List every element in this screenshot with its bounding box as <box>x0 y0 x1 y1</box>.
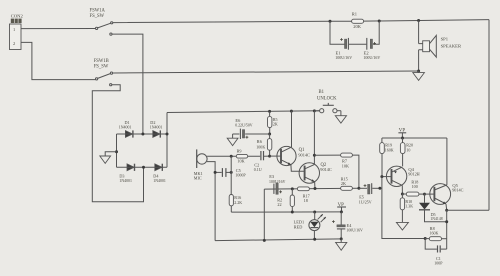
wire FSW1B lower throw to bridge bottom node <box>92 85 143 202</box>
resistor R15 <box>341 176 353 190</box>
svg-text:FS_SW: FS_SW <box>90 14 105 19</box>
wire Q2 collector up <box>313 111 315 165</box>
node R8 C1 left <box>424 237 427 240</box>
node VP E4 top <box>340 210 343 213</box>
svg-text:10K: 10K <box>237 159 244 164</box>
svg-text:E6: E6 <box>235 118 241 123</box>
svg-text:1000P: 1000P <box>235 173 246 178</box>
wire top rail right segment <box>364 20 489 22</box>
svg-text:1N4001: 1N4001 <box>119 179 132 183</box>
resistor R7 <box>314 153 352 168</box>
capacitor E4 <box>332 212 363 239</box>
LED LED1 RED <box>294 212 326 239</box>
node E1 branch right <box>378 20 381 23</box>
wire Q1 emitter to Q2 base <box>291 165 305 172</box>
capacitor E6 <box>233 118 270 139</box>
switch FSW1A <box>90 9 113 36</box>
wire mic top to R9 <box>207 155 236 157</box>
node R5 top <box>268 110 271 113</box>
svg-text:2: 2 <box>13 41 15 46</box>
wire top rail left segment <box>113 21 352 22</box>
svg-text:100U/16V: 100U/16V <box>346 229 363 233</box>
resistor R2 <box>277 189 294 212</box>
power VP right <box>398 129 406 138</box>
node Q1 base junction <box>268 155 271 158</box>
svg-text:1N4148: 1N4148 <box>430 217 442 221</box>
node R2 bottom <box>291 211 294 214</box>
connector CON2 <box>10 14 24 50</box>
svg-text:0.22U/50V: 0.22U/50V <box>235 124 253 128</box>
wire Q5 collector to rail <box>446 138 448 185</box>
svg-text:20K: 20K <box>353 24 362 29</box>
node R5 R6 E6 junction <box>268 133 271 136</box>
svg-text:R9: R9 <box>237 149 242 154</box>
capacitor E5 <box>359 183 380 204</box>
svg-text:D4: D4 <box>153 173 159 178</box>
svg-text:10: 10 <box>406 147 410 152</box>
node Q5 base D5 junction <box>423 193 426 196</box>
svg-text:SPEAKER: SPEAKER <box>441 43 462 48</box>
svg-text:1N4001: 1N4001 <box>150 126 163 130</box>
svg-text:100K: 100K <box>256 145 265 150</box>
wire emitter rail <box>264 187 359 190</box>
ground at speaker <box>413 71 425 80</box>
resistor R1 <box>352 11 364 29</box>
svg-text:E4: E4 <box>347 223 353 228</box>
svg-text:22: 22 <box>277 202 281 207</box>
node VP R20 <box>401 137 404 140</box>
svg-text:100P: 100P <box>434 261 443 266</box>
svg-text:100U/16V: 100U/16V <box>363 55 380 60</box>
node speaker top <box>417 19 420 22</box>
wire Q5 base <box>425 193 435 195</box>
wire E3 left to ground rail <box>263 189 265 240</box>
node button tap <box>313 109 316 112</box>
svg-text:D2: D2 <box>150 120 155 125</box>
wire bridge left rail <box>116 134 118 167</box>
svg-text:E3: E3 <box>269 174 275 179</box>
node LED bottom <box>313 238 316 241</box>
node Q2 emitter R15 junction <box>314 187 317 190</box>
node bridge right top <box>166 133 169 136</box>
node E1 branch left <box>329 20 332 23</box>
node bridge ground tap <box>115 150 118 153</box>
svg-text:160K: 160K <box>385 147 394 152</box>
node bridge top mid <box>141 133 144 136</box>
diode D5 1N4148 <box>419 194 447 222</box>
svg-text:UNLOCK: UNLOCK <box>317 96 337 101</box>
svg-text:100: 100 <box>412 184 418 189</box>
transistor Q2 9014C <box>299 163 332 183</box>
node D5 cathode junction <box>445 220 448 223</box>
node R2 top <box>291 187 294 190</box>
wire FSW1A lower throw to bridge top node <box>112 34 143 134</box>
wire bridge bottom row <box>117 166 168 168</box>
svg-text:FSW1B: FSW1B <box>94 59 109 64</box>
svg-text:2.2K: 2.2K <box>234 200 242 205</box>
wire Q2 emitter down <box>314 182 316 189</box>
switch FSW1B <box>94 59 113 86</box>
diode D2 1N4001 <box>150 120 163 137</box>
node Q4 base tee <box>380 175 383 178</box>
svg-text:9014C: 9014C <box>298 152 310 157</box>
wire CON2 pin1 to FSW1A common <box>21 28 96 30</box>
wire Q5 emitter to R8 <box>446 210 448 249</box>
wire ground rail bottom <box>215 239 342 241</box>
wire VP rail <box>231 211 341 213</box>
svg-text:1N4001: 1N4001 <box>153 179 166 183</box>
resistor R20 <box>400 138 413 166</box>
svg-text:0.1U: 0.1U <box>254 167 262 172</box>
svg-text:CON2: CON2 <box>11 14 24 19</box>
microphone MK1 MIC <box>194 149 207 180</box>
node speaker ground junction <box>417 70 420 73</box>
diode D3 1N4001 <box>119 164 134 183</box>
node Q5 emitter <box>445 209 448 212</box>
svg-text:9014C: 9014C <box>452 188 463 193</box>
svg-text:FSW1A: FSW1A <box>90 9 106 14</box>
ground at button B1 <box>335 111 346 123</box>
svg-text:1.3K: 1.3K <box>405 204 413 209</box>
wire CON2 pin2 to FSW1B common <box>21 42 96 79</box>
wire supply rail from bridge to button <box>167 111 320 113</box>
wire bridge right rail <box>166 113 168 168</box>
resistor R9 <box>236 149 247 164</box>
resistor R6 <box>256 134 272 156</box>
wire Q5 emitter down <box>445 204 448 210</box>
svg-text:RED: RED <box>294 224 303 229</box>
svg-text:MIC: MIC <box>194 176 202 181</box>
node Q1 collector top <box>290 110 293 113</box>
svg-text:1U/25V: 1U/25V <box>359 199 372 204</box>
wire Q5 emitter to right edge <box>447 209 489 211</box>
svg-text:9014C: 9014C <box>320 167 332 172</box>
node Q4 collector junction <box>401 193 404 196</box>
ground at E4 <box>336 239 347 250</box>
svg-text:D1: D1 <box>125 120 130 125</box>
ground at bridge <box>100 152 117 164</box>
resistor R17 <box>297 187 309 203</box>
node bridge bottom mid <box>142 166 145 169</box>
node E3 ground <box>263 239 266 242</box>
node R15 R7 junction <box>357 187 360 190</box>
resistor R16 <box>229 195 242 213</box>
wire Q4 collector <box>401 185 403 194</box>
ground at R10 <box>396 222 408 230</box>
capacitor E3 <box>269 174 286 194</box>
resistor R8 <box>425 226 447 241</box>
svg-text:B1: B1 <box>319 90 325 95</box>
svg-text:18: 18 <box>304 198 308 203</box>
svg-text:10K: 10K <box>342 163 349 168</box>
wire Q4 base feedback line <box>382 177 425 239</box>
wire right supply rail <box>382 137 447 139</box>
wire bridge top row <box>117 133 168 135</box>
diode D1 1N4001 <box>119 120 133 137</box>
transistor Q4 9012H <box>386 166 419 186</box>
svg-text:D3: D3 <box>119 173 124 178</box>
power VP <box>337 203 346 212</box>
svg-text:2K: 2K <box>273 122 278 127</box>
svg-text:FS_SW: FS_SW <box>94 64 109 69</box>
wire Q4 base <box>382 176 392 178</box>
wire mic bottom down <box>207 162 215 241</box>
wire mic bias down to R16 <box>230 156 232 194</box>
resistor R19 <box>380 138 394 177</box>
svg-text:2K: 2K <box>341 181 346 186</box>
diode D4 1N4001 <box>153 164 166 183</box>
svg-text:R6: R6 <box>257 139 263 144</box>
ground at E6 <box>227 134 238 146</box>
svg-text:1N4001: 1N4001 <box>119 126 132 130</box>
node C5 right <box>230 171 233 174</box>
node R7 left <box>313 154 316 157</box>
resistor R5 <box>268 111 278 134</box>
wire R7 right down to R15 node <box>352 155 359 188</box>
wire right edge vertical <box>488 20 490 211</box>
node E5 right Q4 base line <box>378 187 381 190</box>
wire Q1 collector <box>291 111 293 147</box>
svg-text:160K: 160K <box>430 231 439 236</box>
wire Q1 base <box>270 155 281 157</box>
capacitor E2 <box>349 21 380 60</box>
speaker SP1 <box>419 21 462 71</box>
svg-text:9012H: 9012H <box>408 171 419 176</box>
capacitor E1 <box>330 21 352 60</box>
node LED top <box>313 211 316 214</box>
capacitor C2 <box>254 151 270 172</box>
transistor Q5 9014C <box>430 183 464 204</box>
node mic R9 junction <box>230 155 233 158</box>
wire FSW1B common rail to speaker ground <box>113 71 419 73</box>
capacitor C5 <box>215 168 246 178</box>
svg-text:R1: R1 <box>352 11 357 16</box>
svg-text:100U/16V: 100U/16V <box>335 55 352 60</box>
resistor R18 <box>402 179 424 196</box>
resistor R10 <box>400 194 413 222</box>
transistor Q1 9014C <box>277 146 310 165</box>
wire R9 to C2 <box>248 155 261 157</box>
capacitor C1 <box>425 239 447 266</box>
node E4 bottom <box>340 237 343 240</box>
svg-text:1: 1 <box>13 27 15 32</box>
svg-text:SP1: SP1 <box>441 37 449 42</box>
pushbutton B1 UNLOCK <box>314 90 341 113</box>
node C5 left <box>214 171 217 174</box>
